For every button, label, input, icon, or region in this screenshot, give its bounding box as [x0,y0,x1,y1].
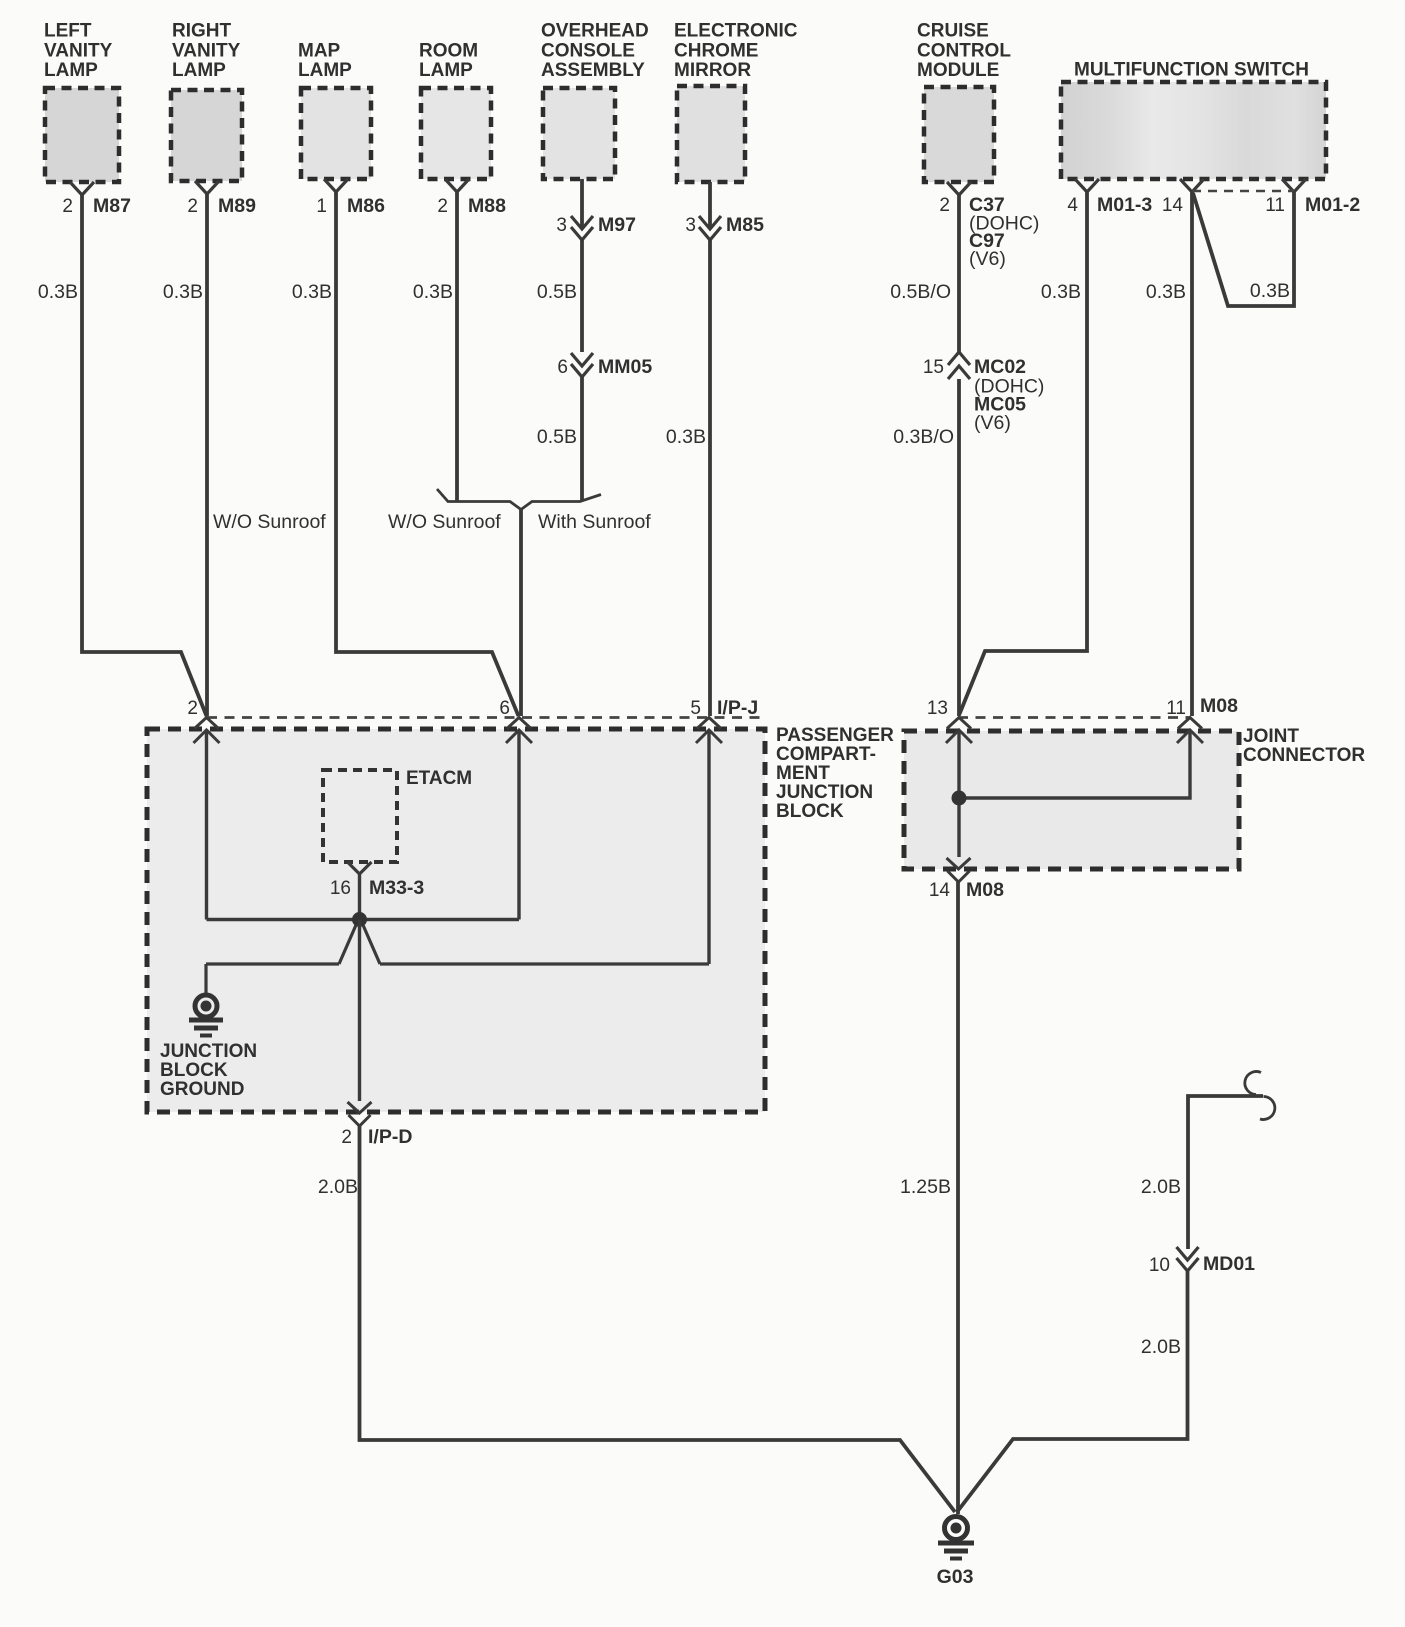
svg-text:MODULE: MODULE [917,60,999,81]
joint connector dashed line M08 [958,716,1190,719]
wire from mirror to connector M85 [708,182,712,229]
connector M33-3 pin 16 [330,862,425,899]
connector MM05 pin 6 [557,353,652,378]
svg-text:14: 14 [929,880,951,901]
svg-text:CONSOLE: CONSOLE [541,41,635,62]
svg-text:CRUISE: CRUISE [917,21,989,42]
svg-text:MM05: MM05 [598,356,652,378]
svg-text:MENT: MENT [776,763,830,784]
svg-text:13: 13 [927,698,948,719]
svg-text:0.3B: 0.3B [413,281,453,303]
connector MD01 pin 10 [1149,1247,1255,1276]
joint connector pin 13 [927,698,972,743]
junction node [352,912,367,927]
svg-text:MULTIFUNCTION SWITCH: MULTIFUNCTION SWITCH [1074,60,1309,81]
wire 0.5B from MM05 to sunroof bracket [537,377,582,501]
svg-text:2: 2 [341,1127,352,1148]
svg-text:0.3B: 0.3B [666,426,706,448]
svg-text:2: 2 [187,196,198,217]
svg-text:JOINT: JOINT [1243,726,1299,747]
connector MC02/MC05 pin 15 [923,352,1045,434]
svg-text:1: 1 [316,196,327,217]
wire from bracket to junction block pin 6 [519,510,523,717]
joint connector exit pin 14 M08 [929,858,1004,901]
wire from M33-3 to junction node [358,874,361,920]
joint connector block [904,726,1365,869]
internal wire from pin 5 [707,730,710,964]
svg-text:JUNCTION: JUNCTION [776,782,873,803]
svg-text:M08: M08 [1200,695,1238,717]
wire 1.25B from joint connector to ground G03 [900,882,958,1514]
passenger compartment junction block [147,725,894,1112]
svg-text:4: 4 [1067,195,1078,216]
svg-text:LAMP: LAMP [44,60,98,81]
connector C37/C97 pin 2 [939,182,1039,270]
wire 0.5B/O from C37 to MC02 [890,195,959,352]
junction block exit connector I/P-D pin 2 [341,1102,412,1148]
svg-text:ETACM: ETACM [406,768,472,789]
svg-text:2.0B: 2.0B [318,1176,358,1198]
svg-text:CHROME: CHROME [674,41,758,62]
wire from node down to I/P-D [358,920,361,1102]
joint connector internal wires [952,730,1191,857]
svg-text:6: 6 [499,698,510,719]
joint connector pin 11 M08 [1166,695,1238,743]
svg-text:CONTROL: CONTROL [917,41,1011,62]
svg-text:11: 11 [1265,195,1285,216]
svg-text:M97: M97 [598,214,636,236]
svg-text:JUNCTION: JUNCTION [160,1041,257,1062]
svg-text:COMPART-: COMPART- [776,744,876,765]
svg-text:0.5B/O: 0.5B/O [890,281,951,303]
ETACM box [323,768,472,862]
component ROOM LAMP [419,41,491,180]
svg-text:1.25B: 1.25B [900,1176,951,1198]
wire 2.0B from MD01 to ground G03 [957,1271,1188,1512]
svg-text:0.5B: 0.5B [537,426,577,448]
svg-text:14: 14 [1162,195,1184,216]
wire 0.3B from pin 14 to joint connector pin 11 [1146,192,1192,716]
wire 0.3B from M86 to junction block pin 6 [292,192,519,716]
wire 0.3B from M87 to junction block pin 2 [38,195,207,716]
svg-text:0.3B/O: 0.3B/O [893,426,954,448]
M01-2 connector dashed line [1192,190,1294,193]
svg-text:0.5B: 0.5B [537,281,577,303]
wire stub with curl to other circuit [1141,1072,1275,1249]
connector M88 pin 2 [437,179,506,217]
component OVERHEAD CONSOLE ASSEMBLY [541,21,649,180]
svg-text:VANITY: VANITY [172,41,241,62]
connector M85 pin 3 [685,214,764,240]
svg-text:MIRROR: MIRROR [674,60,751,81]
wire 0.5B from M97 to MM05 [537,240,582,352]
connector M87 pin 2 [62,182,131,217]
svg-text:2.0B: 2.0B [1141,1176,1181,1198]
connector M97 pin 3 [556,214,636,240]
junction block pin 6 [499,698,532,743]
svg-text:2: 2 [939,195,950,216]
svg-text:With Sunroof: With Sunroof [538,511,651,533]
svg-text:ELECTRONIC: ELECTRONIC [674,21,798,42]
wire 0.3B from M01-3 pin 4 to joint connector pin 13 [960,192,1088,714]
svg-text:M87: M87 [93,195,131,217]
ground bus wire [206,962,709,965]
svg-text:I/P-D: I/P-D [368,1126,412,1148]
svg-text:BLOCK: BLOCK [776,801,844,822]
svg-text:I/P-J: I/P-J [717,697,758,719]
svg-text:RIGHT: RIGHT [172,21,232,42]
internal wire from pin 2 [205,730,208,920]
svg-text:10: 10 [1149,1255,1170,1276]
component CRUISE CONTROL MODULE [917,21,1011,183]
svg-text:LAMP: LAMP [419,60,473,81]
svg-text:LEFT: LEFT [44,21,92,42]
svg-text:0.3B: 0.3B [1041,281,1081,303]
component RIGHT VANITY LAMP [171,21,242,182]
svg-text:M01-2: M01-2 [1305,194,1360,216]
svg-text:PASSENGER: PASSENGER [776,725,894,746]
connector M89 pin 2 [187,181,256,217]
component ELECTRONIC CHROME MIRROR [674,21,798,183]
svg-text:11: 11 [1166,698,1186,719]
junction block ground symbol [160,964,257,1100]
svg-text:5: 5 [690,698,701,719]
svg-text:M85: M85 [726,214,764,236]
svg-text:0.3B: 0.3B [38,281,78,303]
svg-text:GROUND: GROUND [160,1079,244,1100]
svg-text:ROOM: ROOM [419,41,478,62]
connector M01-3 pin 4 [1067,179,1152,216]
svg-text:2.0B: 2.0B [1141,1336,1181,1358]
svg-text:0.3B: 0.3B [163,281,203,303]
svg-text:BLOCK: BLOCK [160,1060,228,1081]
internal bus wire [207,918,520,921]
I/P connector dashed line [207,716,765,719]
wire 2.0B from I/P-D to ground G03 [318,1126,955,1512]
svg-text:M33-3: M33-3 [369,877,424,899]
svg-text:VANITY: VANITY [44,41,113,62]
wire from overhead console to connector M97 [580,179,584,229]
svg-text:W/O Sunroof: W/O Sunroof [388,511,501,533]
component MULTIFUNCTION SWITCH [1061,60,1326,180]
svg-text:MAP: MAP [298,41,341,62]
svg-text:15: 15 [923,357,944,378]
svg-text:16: 16 [330,878,351,899]
junction block pin 2 [187,698,219,743]
svg-text:LAMP: LAMP [298,60,352,81]
svg-text:OVERHEAD: OVERHEAD [541,21,649,42]
svg-text:(V6): (V6) [969,248,1006,270]
svg-text:ASSEMBLY: ASSEMBLY [541,60,645,81]
wire 0.3B loop from pin 14 to M01-2 pin 11 [1193,192,1294,306]
wire 0.3B from M88 to sunroof option bracket [413,192,457,501]
svg-text:M89: M89 [218,195,256,217]
svg-text:(V6): (V6) [974,412,1011,434]
svg-text:M86: M86 [347,195,385,217]
component LEFT VANITY LAMP [44,21,119,183]
component MAP LAMP [298,41,371,180]
branch wires from node to ground bus [339,925,380,964]
svg-text:0.3B: 0.3B [1146,281,1186,303]
svg-text:W/O Sunroof: W/O Sunroof [213,511,326,533]
svg-text:3: 3 [556,215,567,236]
svg-text:M08: M08 [966,879,1004,901]
svg-text:0.3B: 0.3B [292,281,332,303]
svg-text:6: 6 [557,357,568,378]
svg-text:3: 3 [685,215,696,236]
svg-text:2: 2 [187,698,198,719]
svg-text:0.3B: 0.3B [1250,280,1290,302]
svg-text:MD01: MD01 [1203,1253,1255,1275]
svg-text:G03: G03 [937,1566,974,1588]
internal wire from pin 6 [517,730,520,920]
wire 0.3B/O from MC05 to joint connector pin 13 [893,379,959,716]
ground G03 [937,1517,974,1589]
junction block pin 5 I/P-J [690,697,758,743]
sunroof option bracket [388,489,651,533]
connector M86 pin 1 [316,179,385,217]
svg-text:2: 2 [62,196,73,217]
svg-text:2: 2 [437,196,448,217]
svg-text:M01-3: M01-3 [1097,194,1152,216]
connector M01-2 pin 11 [1265,179,1360,216]
svg-text:LAMP: LAMP [172,60,226,81]
svg-text:M88: M88 [468,195,506,217]
wire 0.3B from M85 to junction block pin 5 [666,240,710,716]
svg-text:CONNECTOR: CONNECTOR [1243,745,1365,766]
wire 0.3B from M89 to junction block pin 2 [163,194,207,716]
connector pin 14 [1162,179,1204,216]
